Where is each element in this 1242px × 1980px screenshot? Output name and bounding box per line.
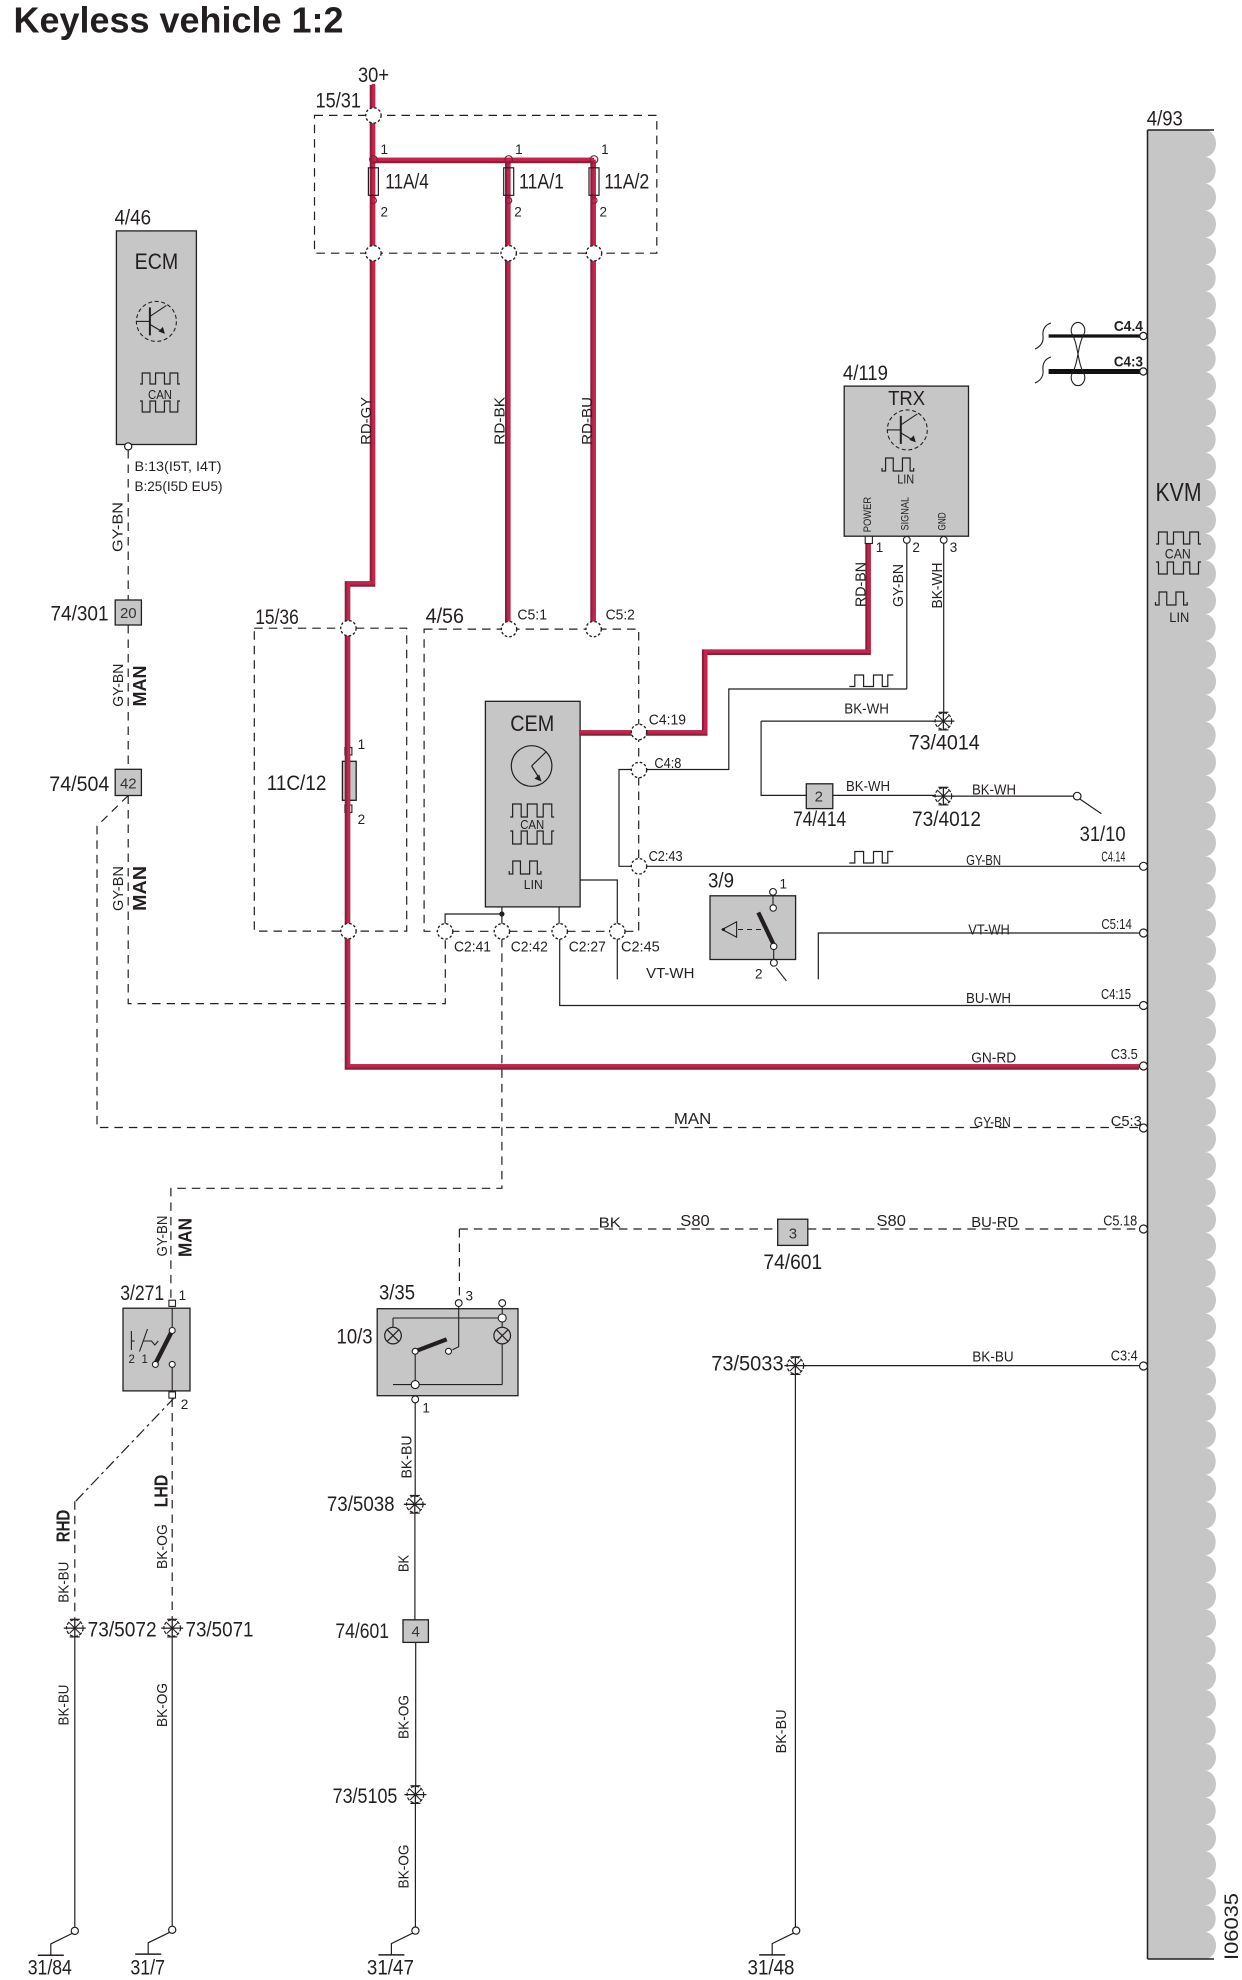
svg-text:73/5071: 73/5071 — [186, 1619, 254, 1642]
svg-text:B:25(I5D EU5): B:25(I5D EU5) — [135, 478, 223, 494]
svg-text:73/5105: 73/5105 — [333, 1785, 398, 1808]
svg-text:11A/2: 11A/2 — [604, 171, 649, 194]
svg-text:1: 1 — [515, 142, 523, 157]
svg-text:3/9: 3/9 — [708, 870, 734, 893]
svg-text:C2:42: C2:42 — [511, 939, 548, 956]
svg-text:GY-BN: GY-BN — [966, 852, 1001, 869]
svg-text:1: 1 — [142, 1354, 148, 1366]
svg-text:BK-OG: BK-OG — [154, 1524, 171, 1569]
svg-text:31/47: 31/47 — [367, 1957, 414, 1980]
svg-text:2: 2 — [912, 540, 920, 555]
svg-text:I06035: I06035 — [1222, 1893, 1242, 1960]
svg-text:BK-BU: BK-BU — [399, 1436, 416, 1479]
svg-text:LIN: LIN — [1169, 609, 1189, 625]
svg-text:31/84: 31/84 — [28, 1957, 72, 1980]
svg-text:MAN: MAN — [130, 666, 150, 707]
svg-text:30+: 30+ — [358, 64, 389, 87]
svg-text:C4:3: C4:3 — [1114, 354, 1143, 371]
svg-text:BK-BU: BK-BU — [55, 1685, 72, 1726]
svg-text:73/5072: 73/5072 — [88, 1619, 157, 1642]
svg-text:CEM: CEM — [510, 711, 554, 736]
svg-text:3: 3 — [789, 1226, 797, 1243]
svg-text:BK-BU: BK-BU — [972, 1349, 1013, 1366]
svg-text:C4.14: C4.14 — [1101, 849, 1125, 866]
svg-text:BK: BK — [396, 1555, 413, 1572]
svg-text:1: 1 — [179, 1288, 187, 1303]
svg-text:C4:19: C4:19 — [649, 712, 686, 729]
svg-text:4/46: 4/46 — [115, 207, 152, 230]
svg-text:C5:3: C5:3 — [1111, 1113, 1142, 1130]
svg-text:BK: BK — [599, 1215, 621, 1232]
svg-text:VT-WH: VT-WH — [968, 922, 1010, 939]
svg-text:GY-BN: GY-BN — [890, 564, 907, 607]
svg-text:BK-WH: BK-WH — [929, 563, 946, 609]
svg-text:73/4014: 73/4014 — [909, 732, 980, 755]
svg-text:74/504: 74/504 — [49, 773, 109, 796]
svg-text:BK-OG: BK-OG — [396, 1845, 413, 1889]
svg-text:LIN: LIN — [524, 877, 543, 892]
svg-text:GY-BN: GY-BN — [974, 1114, 1011, 1131]
svg-text:1: 1 — [358, 737, 366, 752]
svg-text:2: 2 — [600, 205, 608, 220]
svg-text:4/119: 4/119 — [843, 362, 888, 385]
svg-text:BK-WH: BK-WH — [846, 778, 890, 795]
svg-text:C2:41: C2:41 — [454, 939, 491, 956]
svg-text:C2:45: C2:45 — [621, 939, 660, 956]
svg-text:C2:27: C2:27 — [569, 939, 606, 956]
svg-text:2: 2 — [815, 789, 823, 806]
svg-text:GY-BN: GY-BN — [154, 1216, 171, 1257]
svg-text:31/10: 31/10 — [1080, 823, 1126, 846]
svg-text:74/601: 74/601 — [763, 1251, 822, 1274]
svg-text:2: 2 — [514, 205, 522, 220]
svg-text:BK-BU: BK-BU — [55, 1562, 72, 1603]
svg-text:4/93: 4/93 — [1147, 107, 1183, 130]
svg-text:3: 3 — [466, 1289, 474, 1304]
svg-text:C2:43: C2:43 — [649, 848, 683, 865]
svg-text:20: 20 — [120, 605, 137, 622]
svg-text:2: 2 — [358, 812, 366, 827]
svg-text:74/301: 74/301 — [51, 603, 109, 626]
svg-text:ECM: ECM — [135, 249, 179, 274]
svg-text:RD-GY: RD-GY — [358, 397, 375, 445]
svg-text:11A/1: 11A/1 — [519, 171, 564, 194]
svg-text:B:13(I5T, I4T): B:13(I5T, I4T) — [135, 458, 222, 474]
svg-text:42: 42 — [120, 776, 137, 793]
svg-text:C5.18: C5.18 — [1103, 1213, 1137, 1230]
svg-text:LIN: LIN — [897, 471, 914, 486]
svg-text:1: 1 — [601, 142, 609, 157]
svg-text:31/48: 31/48 — [748, 1957, 795, 1980]
svg-text:74/414: 74/414 — [793, 808, 846, 831]
svg-text:1: 1 — [780, 877, 788, 892]
svg-text:S80: S80 — [877, 1213, 907, 1230]
svg-text:CAN: CAN — [520, 817, 544, 832]
svg-text:MAN: MAN — [674, 1111, 711, 1128]
svg-text:73/5038: 73/5038 — [327, 1493, 395, 1516]
svg-text:10/3: 10/3 — [337, 1326, 373, 1349]
svg-text:BK-WH: BK-WH — [972, 782, 1016, 799]
svg-text:RD-BN: RD-BN — [853, 562, 870, 607]
svg-text:BK-WH: BK-WH — [844, 701, 889, 718]
svg-text:3: 3 — [950, 540, 958, 555]
svg-text:GY-BN: GY-BN — [110, 502, 127, 552]
svg-text:RHD: RHD — [54, 1510, 74, 1543]
svg-text:BK-OG: BK-OG — [396, 1695, 413, 1739]
svg-text:GY-BN: GY-BN — [110, 664, 127, 707]
svg-text:1: 1 — [381, 142, 389, 157]
svg-text:POWER: POWER — [862, 497, 874, 532]
svg-text:15/36: 15/36 — [255, 606, 299, 629]
svg-text:VT-WH: VT-WH — [646, 965, 694, 982]
svg-text:C5:1: C5:1 — [517, 607, 547, 624]
svg-text:SIGNAL: SIGNAL — [900, 497, 912, 531]
svg-text:C3.5: C3.5 — [1111, 1046, 1138, 1063]
svg-text:GND: GND — [936, 512, 948, 530]
svg-text:31/7: 31/7 — [130, 1957, 165, 1980]
svg-text:GY-BN: GY-BN — [110, 866, 127, 911]
svg-text:11C/12: 11C/12 — [267, 772, 327, 795]
svg-text:11A/4: 11A/4 — [385, 171, 429, 194]
svg-text:MAN: MAN — [175, 1218, 195, 1257]
svg-text:2: 2 — [181, 1397, 189, 1412]
svg-text:CAN: CAN — [1165, 546, 1191, 562]
svg-text:Keyless vehicle 1:2: Keyless vehicle 1:2 — [14, 0, 344, 41]
svg-text:2: 2 — [755, 967, 763, 982]
svg-text:3/35: 3/35 — [379, 1282, 415, 1305]
svg-text:C4:15: C4:15 — [1101, 986, 1131, 1003]
svg-text:73/5033: 73/5033 — [711, 1353, 783, 1376]
svg-text:RD-BU: RD-BU — [579, 397, 596, 445]
svg-text:GN-RD: GN-RD — [971, 1050, 1016, 1067]
svg-text:BK-OG: BK-OG — [154, 1683, 171, 1727]
svg-text:15/31: 15/31 — [316, 90, 362, 113]
svg-text:1: 1 — [876, 540, 884, 555]
svg-text:2: 2 — [381, 205, 389, 220]
svg-text:KVM: KVM — [1156, 477, 1202, 507]
svg-text:C3:4: C3:4 — [1111, 1348, 1138, 1365]
svg-text:BK-BU: BK-BU — [773, 1709, 790, 1753]
svg-text:74/601: 74/601 — [335, 1620, 389, 1643]
svg-text:1: 1 — [422, 1401, 430, 1416]
svg-text:C4:8: C4:8 — [654, 755, 681, 772]
svg-text:73/4012: 73/4012 — [912, 808, 981, 831]
svg-text:MAN: MAN — [130, 866, 150, 911]
svg-text:C5:14: C5:14 — [1101, 916, 1132, 933]
svg-text:3/271: 3/271 — [120, 1282, 164, 1305]
svg-text:C4.4: C4.4 — [1114, 318, 1144, 335]
svg-text:S80: S80 — [680, 1213, 710, 1230]
svg-text:LHD: LHD — [151, 1475, 171, 1508]
svg-text:CAN: CAN — [148, 387, 172, 402]
svg-text:4: 4 — [412, 1624, 420, 1641]
svg-text:TRX: TRX — [888, 387, 925, 410]
svg-text:C5:2: C5:2 — [606, 607, 635, 624]
svg-text:2: 2 — [129, 1354, 135, 1366]
svg-text:RD-BK: RD-BK — [492, 397, 509, 445]
svg-text:BU-WH: BU-WH — [966, 990, 1011, 1007]
svg-text:4/56: 4/56 — [426, 605, 464, 628]
svg-text:BU-RD: BU-RD — [971, 1214, 1018, 1231]
